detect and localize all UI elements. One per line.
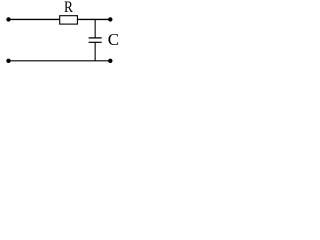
- svg-text:C: C: [108, 30, 119, 49]
- svg-text:R: R: [64, 0, 73, 16]
